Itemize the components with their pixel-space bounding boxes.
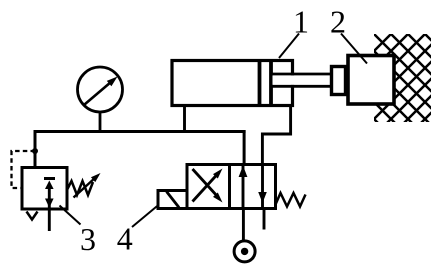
label 2 leader bbox=[341, 34, 367, 64]
valve 3 inlet drop bbox=[34, 130, 37, 168]
relief valve 3 body bbox=[22, 168, 67, 210]
svg-text:1: 1 bbox=[293, 4, 309, 40]
crossed arrow up-right bbox=[193, 174, 219, 202]
label 1 leader bbox=[279, 34, 299, 59]
junction node bbox=[32, 148, 38, 154]
valve 4 divider bbox=[228, 165, 231, 209]
piston rod bbox=[273, 75, 332, 85]
rod coupling bbox=[332, 67, 346, 95]
valve 3 drain vent bbox=[27, 212, 38, 220]
cylinder C body bbox=[172, 61, 293, 106]
cylinder right port pipe bbox=[262, 106, 290, 166]
svg-text:2: 2 bbox=[330, 4, 346, 40]
svg-text:3: 3 bbox=[80, 221, 96, 257]
valve 3 adjust arrow bbox=[74, 178, 96, 198]
valve 4 left flow line with up arrow bbox=[242, 165, 245, 209]
gauge stem bbox=[99, 112, 102, 133]
solenoid bbox=[158, 191, 187, 209]
valve A-port pipe bbox=[243, 130, 246, 165]
valve 4 right flow line with down arrow bbox=[261, 165, 264, 209]
crossed arrow down-right bbox=[193, 169, 219, 197]
piston bbox=[258, 61, 262, 106]
valve 3 poppet arrow up bbox=[45, 181, 54, 190]
pressure source bbox=[234, 241, 255, 262]
workpiece block 2 bbox=[348, 56, 394, 105]
pump supply pipe bbox=[242, 209, 245, 242]
pressure gauge bbox=[78, 67, 123, 112]
valve 3 stem bbox=[48, 185, 51, 231]
hatched wall bbox=[374, 34, 431, 122]
cylinder left port pipe bbox=[183, 106, 186, 134]
label 4 leader bbox=[132, 205, 159, 228]
valve 4 body bbox=[187, 165, 276, 209]
label 3 leader bbox=[60, 206, 81, 225]
svg-text:4: 4 bbox=[117, 221, 133, 257]
main supply line bbox=[34, 130, 246, 133]
valve 3 seat bar bbox=[44, 177, 55, 180]
pilot dashed line bbox=[12, 151, 36, 188]
tank return pipe bbox=[263, 209, 266, 230]
valve 4 spring bbox=[276, 193, 306, 207]
valve 3 spring bbox=[67, 181, 93, 195]
valve 3 arrow down bbox=[45, 199, 54, 208]
